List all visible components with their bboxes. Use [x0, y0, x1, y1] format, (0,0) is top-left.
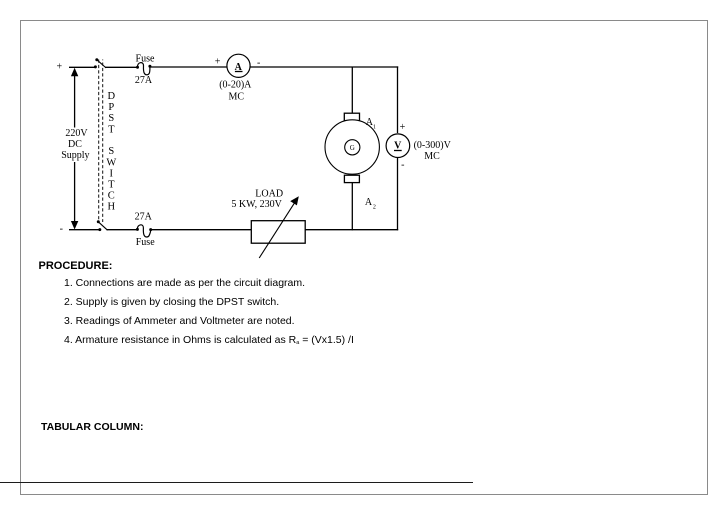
- wire right branch lower (voltmeter down to bottom wire): [397, 157, 399, 230]
- svg-text:+: +: [215, 56, 221, 67]
- voltmeter V (0-300)V MC: [386, 134, 410, 158]
- svg-text:G: G: [350, 144, 355, 152]
- step 3: [64, 315, 295, 327]
- DPST switch dashed gang bars: [99, 60, 103, 223]
- label 5 KW, 230V: [231, 199, 282, 210]
- svg-text:D: D: [108, 91, 116, 102]
- svg-text:2: 2: [373, 205, 376, 211]
- label Fuse (bottom): [136, 237, 155, 248]
- svg-text:C: C: [108, 191, 115, 202]
- wire top-left from supply to switch S1: [69, 66, 95, 68]
- node A2 (armature terminal label): [365, 197, 376, 211]
- svg-text:5 KW, 230V: 5 KW, 230V: [231, 199, 282, 210]
- svg-text:S: S: [108, 113, 114, 124]
- svg-text:T: T: [108, 124, 115, 135]
- wire from ammeter A to right branch: [251, 66, 399, 68]
- label DPST SWITCH (vertical): [106, 91, 116, 213]
- wire bottom-left from supply to switch S2: [69, 229, 100, 231]
- step 2: [64, 296, 279, 308]
- table rule line: [0, 482, 473, 484]
- svg-text:(0-20)A: (0-20)A: [219, 79, 252, 90]
- node - (voltmeter polarity): [401, 159, 404, 170]
- label 27A (bottom): [135, 212, 153, 223]
- wire motor branch bottom (armature to bottom wire): [351, 183, 353, 231]
- heading PROCEDURE: [39, 260, 113, 272]
- wire from fuse F1 to ammeter A: [150, 66, 227, 68]
- svg-text:T: T: [108, 180, 115, 191]
- svg-text:S: S: [108, 146, 114, 157]
- node - (supply negative terminal label): [60, 224, 63, 235]
- svg-text:MC: MC: [424, 151, 440, 162]
- step 4: [64, 334, 354, 349]
- svg-text:W: W: [106, 157, 116, 168]
- svg-text:LOAD: LOAD: [255, 188, 283, 199]
- svg-text:+: +: [56, 62, 62, 73]
- svg-text:1: 1: [373, 125, 376, 131]
- svg-text:I: I: [110, 168, 114, 179]
- generator G armature (DC machine): [325, 113, 379, 182]
- node A1 (armature terminal label): [366, 117, 376, 131]
- fuse F1 27A (top): [136, 63, 151, 75]
- node + (ammeter polarity): [215, 56, 221, 67]
- label MC (voltmeter type): [424, 151, 440, 162]
- label LOAD: [255, 188, 283, 199]
- switch S1 top pole of DPST: [94, 58, 106, 68]
- svg-text:27A: 27A: [135, 212, 153, 223]
- label MC (ammeter type): [229, 91, 245, 102]
- label (0-20)A: [219, 79, 252, 90]
- svg-text:27A: 27A: [135, 75, 153, 86]
- svg-text:MC: MC: [229, 91, 245, 102]
- svg-text:DC: DC: [68, 139, 82, 150]
- svg-text:(0-300)V: (0-300)V: [414, 140, 452, 151]
- wire from switch S1 to fuse F1: [105, 66, 138, 68]
- svg-text:Fuse: Fuse: [136, 237, 155, 248]
- svg-text:Fuse: Fuse: [136, 53, 155, 64]
- svg-text:P: P: [108, 102, 114, 113]
- ammeter A (0-20)A MC: [227, 54, 250, 77]
- svg-text:-: -: [401, 159, 404, 170]
- node + (supply positive terminal label): [56, 62, 62, 73]
- wire from load R1 to right branch (bottom): [305, 229, 398, 231]
- resistor R1 LOAD 5KW 230V (rheostat box): [251, 196, 305, 258]
- fuse F2 27A (bottom): [136, 225, 152, 237]
- step 1: [64, 277, 305, 289]
- node - (ammeter polarity): [257, 57, 260, 68]
- svg-text:Supply: Supply: [61, 150, 89, 161]
- svg-text:+: +: [400, 122, 406, 133]
- source V1 220V DC supply arrow: [71, 68, 78, 230]
- wire from switch S2 to fuse F2: [107, 229, 138, 231]
- svg-text:H: H: [108, 202, 116, 213]
- label 27A (top): [135, 75, 153, 86]
- label Fuse (top): [136, 53, 155, 64]
- label (0-300)V: [414, 140, 452, 151]
- node + (voltmeter polarity): [400, 122, 406, 133]
- svg-text:-: -: [60, 224, 63, 235]
- label 220V DC Supply: [61, 128, 89, 161]
- svg-text:V: V: [394, 140, 402, 151]
- wire right branch upper (top wire down to voltmeter): [397, 66, 399, 133]
- svg-text:220V: 220V: [65, 128, 88, 139]
- wire from fuse F2 to load R1: [151, 229, 252, 231]
- svg-text:A: A: [365, 197, 373, 208]
- wire motor branch top (junction to armature): [351, 67, 353, 113]
- heading TABULAR COLUMN: [41, 421, 143, 433]
- switch S2 bottom pole of DPST: [97, 220, 108, 231]
